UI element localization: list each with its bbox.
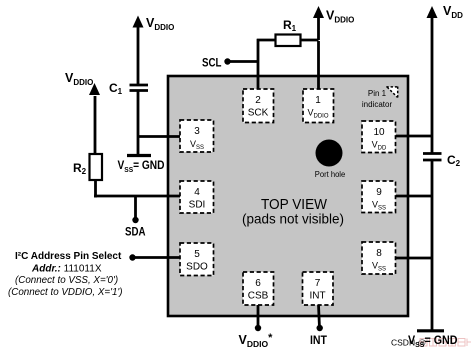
- svg-text:4: 4: [194, 187, 200, 198]
- pad pin 6 CSB: [243, 272, 274, 305]
- wire VDDIO-R2 rail to SDI: [94, 96, 180, 220]
- svg-text:Pin 1: Pin 1: [368, 89, 387, 98]
- svg-text:SDI: SDI: [189, 200, 206, 211]
- node SDA dot: [132, 217, 138, 223]
- pad pin 8 VSS: [362, 242, 396, 274]
- svg-text:VDD: VDD: [443, 4, 463, 20]
- svg-text:SCK: SCK: [248, 108, 269, 119]
- svg-text:R2: R2: [73, 161, 87, 176]
- wire C1 rail: [138, 27, 180, 155]
- ground (VDD rail): [417, 329, 444, 332]
- ground (C1 rail): [127, 154, 151, 157]
- node CSB dot: [255, 325, 261, 331]
- resistor R1: [276, 35, 301, 47]
- pad pin 2 SCK: [243, 89, 274, 123]
- svg-text:2: 2: [255, 95, 261, 106]
- svg-text:CSB: CSB: [248, 291, 269, 302]
- svg-text:7: 7: [315, 278, 321, 289]
- svg-text:indicator: indicator: [362, 100, 393, 109]
- node INT dot: [317, 325, 323, 331]
- pad pin 3 VSS: [180, 120, 214, 152]
- wire INT down: [319, 305, 320, 328]
- resistor R2: [90, 154, 103, 180]
- wire R1 right to VDDIO rail: [300, 15, 319, 89]
- node SCL dot: [224, 58, 230, 64]
- svg-text:Port hole: Port hole: [315, 170, 346, 179]
- svg-text:(Connect to VSS, X='0'): (Connect to VSS, X='0'): [15, 275, 118, 286]
- pad pin 10 VDD: [362, 121, 396, 153]
- node SDO dot: [129, 254, 135, 260]
- power arrow VDDIO (top, pin 1): [313, 6, 324, 18]
- svg-text:(pads not visible): (pads not visible): [242, 211, 344, 227]
- power arrow VDD: [427, 6, 438, 18]
- svg-text:SDA: SDA: [125, 225, 146, 239]
- wire VDD rail right: [396, 15, 432, 330]
- svg-text:C2: C2: [447, 153, 461, 168]
- svg-text:9: 9: [376, 187, 382, 198]
- svg-text:R1: R1: [283, 18, 297, 33]
- svg-text:10: 10: [373, 127, 385, 138]
- pad pin 9 VSS: [362, 181, 396, 213]
- capacitor C1: [130, 85, 149, 91]
- svg-text:VSS= GND: VSS= GND: [118, 160, 165, 174]
- svg-text:INT: INT: [310, 333, 328, 347]
- svg-text:VDDIO*: VDDIO*: [239, 332, 274, 349]
- wire CSB down: [257, 305, 260, 328]
- svg-text:VDDIO: VDDIO: [146, 16, 174, 32]
- svg-text:Addr.: 111011X: Addr.: 111011X: [31, 264, 102, 275]
- svg-text:SDO: SDO: [186, 262, 208, 273]
- wire SCL to SCK net: [227, 39, 276, 89]
- svg-text:5: 5: [194, 249, 200, 260]
- pad pin 5 SDO: [180, 243, 214, 276]
- chip package body: [168, 76, 408, 316]
- watermark CSDN: [391, 338, 471, 348]
- power arrow VDDIO (R2 rail): [89, 83, 100, 95]
- port hole: [316, 140, 343, 167]
- pad pin 7 INT: [303, 272, 334, 305]
- svg-text:SCL: SCL: [202, 56, 222, 70]
- svg-text:(Connect to VDDIO, X='1'): (Connect to VDDIO, X='1'): [8, 287, 123, 298]
- svg-text:3: 3: [194, 126, 200, 137]
- capacitor C2: [423, 154, 442, 161]
- power arrow VDDIO (C1 rail): [133, 16, 144, 28]
- svg-text:VDDIO: VDDIO: [326, 9, 354, 25]
- svg-text:I²C Address Pin Select: I²C Address Pin Select: [15, 251, 122, 262]
- wire SDO to address select: [132, 256, 180, 259]
- svg-text:1: 1: [315, 95, 321, 106]
- svg-text:8: 8: [376, 248, 382, 259]
- pad pin 1 VDDIO: [303, 89, 334, 123]
- svg-text:6: 6: [255, 278, 261, 289]
- svg-text:INT: INT: [309, 291, 325, 302]
- pin 1 indicator icon: [386, 87, 398, 99]
- svg-text:C1: C1: [109, 81, 123, 96]
- pad pin 4 SDI: [180, 181, 214, 213]
- svg-text:VDDIO: VDDIO: [65, 71, 93, 87]
